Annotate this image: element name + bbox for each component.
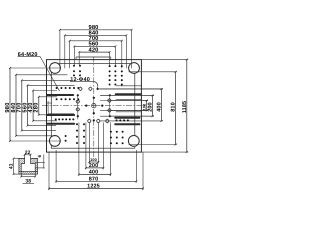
bottom dim 400 extension lines: [78, 123, 80, 176]
bottom dimension 400 line: [79, 173, 111, 175]
svg-text:1225: 1225: [87, 184, 100, 190]
leader 64-M20: [40, 56, 60, 91]
tie-bar hole bottom-left: [49, 136, 60, 147]
bottom dimension 100 line: [89, 161, 98, 163]
T-slot bar right middle: [115, 117, 139, 119]
right dim 200 extension lines: [100, 94, 154, 96]
T-slot bar left middle: [47, 114, 74, 116]
right side slot line upper: [116, 98, 141, 100]
left dim 700 extension lines: [22, 79, 71, 81]
T-slot bar left lower: [47, 123, 74, 125]
svg-text:1185: 1185: [182, 101, 188, 113]
bottom dimension 200 line: [86, 167, 103, 169]
bottom dimension 1225 line: [49, 188, 143, 190]
svg-text:280: 280: [34, 102, 40, 112]
svg-text:100: 100: [143, 104, 147, 111]
top dimension 980 line: [60, 29, 132, 31]
tapped hole grid dots: [73, 65, 75, 67]
center locating ring: [92, 104, 96, 108]
top dim 980 extension lines: [59, 30, 61, 68]
ejector hole ring pattern (12 x dia40): [79, 87, 82, 90]
bottom dim 870 extension lines: [55, 150, 57, 183]
bottom dimension 870 line: [56, 180, 136, 182]
thin line right of TR cluster: [116, 85, 141, 87]
svg-text:870: 870: [89, 177, 98, 183]
svg-text:64-M20: 64-M20: [18, 52, 38, 58]
left dim 430 extension lines: [33, 90, 57, 92]
svg-text:200: 200: [89, 163, 98, 169]
right side slot line lower: [116, 111, 141, 113]
T-slot bar right upper: [116, 93, 141, 95]
left dim 280 extension lines: [39, 96, 57, 98]
extension lines right mid: [111, 100, 148, 102]
right dimension 400 line: [160, 89, 162, 121]
left dimension 700 line: [21, 80, 23, 130]
T-slot bar right lower: [115, 123, 139, 125]
right dim 810 extension lines: [129, 71, 178, 73]
bottom dim 200 extension lines: [85, 123, 87, 170]
right dim 100 extension lines: [100, 100, 148, 102]
top dimension 420 line: [79, 51, 109, 53]
tie-bar hole bottom-right: [128, 136, 139, 147]
left dimension 430 line: [32, 91, 34, 121]
platen inner face outline: [51, 64, 135, 149]
svg-text:12-Φ40: 12-Φ40: [70, 77, 90, 83]
top dim 560 extension lines: [73, 46, 75, 65]
tie-bar hole top-right: [129, 63, 140, 74]
hole column connector lines: [77, 95, 79, 119]
left dimension 560 line: [27, 85, 29, 125]
left dimension 840 line: [15, 75, 17, 136]
svg-text:420: 420: [89, 47, 99, 54]
T-slot detail hatched right block: [31, 158, 38, 171]
left dimension 280 line: [38, 97, 40, 115]
inner top step line: [76, 56, 111, 58]
svg-text:200: 200: [148, 102, 154, 111]
leader 12-dia40: [94, 81, 98, 88]
top dimension 840 line: [65, 34, 127, 36]
svg-text:400: 400: [156, 102, 162, 111]
horizontal centerline: [42, 105, 147, 107]
svg-text:400: 400: [89, 170, 98, 176]
svg-text:810: 810: [171, 102, 177, 111]
top dim 700 extension lines: [69, 41, 71, 68]
detail right extension lines: [35, 162, 45, 164]
bottom dim 1225 extension lines: [48, 152, 50, 190]
left edge slot stub: [47, 102, 52, 104]
top dimension 560 line: [74, 45, 115, 47]
left dimension 980 line: [9, 68, 11, 141]
bottom dim 100 extension lines: [88, 123, 90, 164]
svg-text:100: 100: [90, 158, 97, 162]
T-slot bar left upper: [47, 94, 73, 96]
top dim 420 extension lines: [78, 52, 80, 65]
right dimension 1185 line: [186, 60, 188, 153]
right dimension 810 line: [175, 72, 177, 145]
svg-text:38: 38: [25, 179, 31, 185]
top dim 840 extension lines: [64, 35, 66, 68]
tie-bar hole top-left: [50, 63, 61, 74]
center area tapped holes: [85, 105, 87, 107]
vertical centerline: [93, 57, 95, 158]
left dim 980 extension lines: [10, 67, 61, 69]
left bent extension to hole row: [48, 101, 74, 114]
top dimension 700 line: [70, 40, 122, 42]
T-slot detail bottom strip: [19, 171, 38, 174]
right dim 1185 extension lines: [141, 59, 188, 61]
left dim 840 extension lines: [16, 74, 68, 76]
extension line from hole row to right ladder: [98, 88, 163, 90]
right dimension 200 line: [152, 95, 154, 116]
left dim 560 extension lines: [28, 84, 75, 86]
svg-text:6: 6: [37, 155, 42, 158]
right dimension 100 line: [146, 101, 148, 111]
T-slot detail hatched left block: [19, 158, 25, 171]
right dim 400 extension lines: [100, 88, 163, 90]
platen outer outline: [47, 60, 142, 153]
